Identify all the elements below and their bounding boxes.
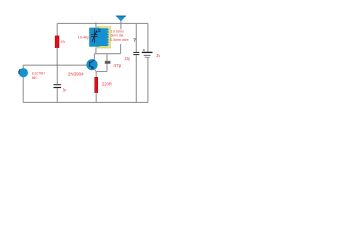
wire: battery top lead (right rail)	[147, 23, 149, 52]
capacitor C2 22p	[133, 52, 139, 54]
node: base/bias junction	[56, 64, 58, 66]
wire: battery bottom lead	[147, 58, 149, 103]
battery plus sign	[143, 49, 145, 51]
wire: 5n branch upper lead	[56, 65, 58, 84]
trimmer VC1 symbol: adjustment arrow	[92, 32, 96, 42]
trimmer VC1 symbol: top lead	[93, 29, 95, 35]
wire: C2 bottom lead	[135, 55, 137, 102]
svg-text:ELECTRET: ELECTRET	[32, 71, 46, 75]
inductor L1 top turn detail	[98, 29, 101, 31]
wire: emitter lead diagonal	[94, 69, 96, 72]
transistor Q1 emitter stroke with arrow	[90, 66, 93, 68]
wire: bottom ground rail	[23, 101, 148, 103]
capacitor C3 47p	[105, 61, 111, 63]
wire: C3 top lead from bus	[106, 54, 108, 61]
svg-text:22p: 22p	[125, 56, 131, 61]
wire: collector vertical	[93, 54, 95, 60]
svg-text:2N3904: 2N3904	[68, 71, 84, 76]
wire: C2 branch top lead	[135, 23, 137, 52]
trimmer capacitor VC1 body	[89, 28, 99, 47]
wire: top V+ rail	[57, 22, 148, 24]
wire: tank top stub	[95, 23, 97, 27]
resistor R1 47k	[55, 36, 59, 48]
battery B1 3v	[142, 52, 153, 57]
wire: collector bus	[94, 53, 120, 55]
svg-text:47k: 47k	[61, 40, 66, 44]
svg-text:220R: 220R	[102, 82, 112, 87]
wire: emitter node horizontal to C3	[96, 71, 107, 73]
svg-text:10-40p: 10-40p	[78, 36, 90, 40]
node: tank to rail junction	[95, 23, 97, 25]
wire: C3 bottom lead	[106, 64, 108, 72]
transistor Q1 collector stroke	[90, 60, 94, 63]
pin number 7 annotation	[133, 39, 135, 42]
wire: antenna stub down to collector bus	[120, 44, 122, 54]
transistor Q1 body	[86, 59, 97, 70]
wire: R1 bottom to base node	[56, 48, 58, 66]
svg-text:0.5mm wire: 0.5mm wire	[110, 38, 128, 42]
wire: antenna stem to rail	[120, 21, 122, 29]
electret microphone MIC1	[19, 68, 28, 77]
wire: mic vertical branch	[22, 65, 24, 102]
wire: base wire from mic to transistor	[23, 64, 89, 66]
transistor Q1 base bar	[89, 62, 90, 67]
wire: left drop from rail to R1	[56, 23, 58, 36]
capacitor C1 5n	[54, 85, 62, 88]
svg-text:6mm dia: 6mm dia	[111, 33, 124, 37]
wire: R2 bottom to ground rail	[95, 93, 97, 103]
trimmer VC1 symbol: bottom lead	[93, 37, 95, 43]
wire: tank bottom stub	[95, 48, 97, 54]
trimmer VC1 symbol: plates	[91, 34, 97, 36]
svg-text:47p: 47p	[113, 63, 122, 68]
svg-text:5n: 5n	[63, 88, 67, 93]
resistor R2 220R	[95, 77, 98, 92]
antenna ANT1 (triangle)	[116, 16, 126, 22]
inductor L1 winding (blue scalloped coil)	[96, 28, 109, 46]
svg-text:MIC: MIC	[32, 76, 38, 80]
wire: 5n branch lower lead	[56, 88, 58, 102]
inductor L1 body (yellow former)	[96, 27, 111, 48]
wire: emitter down to R2	[95, 72, 97, 78]
